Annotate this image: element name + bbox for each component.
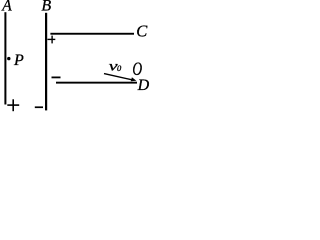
svg-text:0: 0 [117, 63, 122, 73]
svg-text:A: A [1, 0, 12, 14]
svg-text:C: C [136, 21, 148, 40]
svg-text:O: O [132, 59, 142, 80]
plate A (left vertical plate) [4, 12, 6, 104]
plate D (bottom horizontal plate) [56, 82, 137, 84]
svg-text:B: B [41, 0, 51, 15]
minus sign above left end of plate D [52, 77, 61, 79]
minus sign at bottom left of plate B [35, 106, 43, 108]
plus sign at bottom of plate A [7, 99, 19, 111]
node P dot [7, 57, 10, 60]
plate B (second vertical plate) [45, 13, 47, 111]
plus sign under left end of plate C [48, 36, 56, 44]
svg-text:P: P [13, 52, 24, 69]
svg-text:D: D [137, 77, 150, 94]
velocity arrow v0 toward O [104, 74, 132, 80]
plate C (top horizontal plate) [50, 33, 134, 35]
